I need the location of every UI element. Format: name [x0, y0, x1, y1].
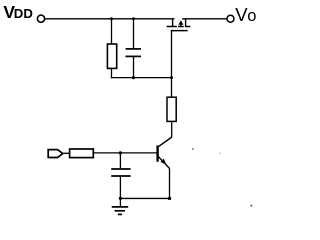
resistor R3: [70, 149, 94, 158]
wire R2 bottom lead: [171, 121, 173, 137]
wire C2 top lead: [119, 153, 121, 168]
wire port to R3: [63, 152, 70, 154]
wire C2 bottom lead: [119, 176, 121, 198]
svg-text:DD: DD: [14, 6, 33, 21]
node rail-R1 junction: [110, 17, 113, 20]
node base-C2 junction: [119, 151, 122, 154]
wire top rail: [45, 18, 175, 20]
node rail-C1 junction: [132, 17, 135, 20]
capacitor C1: [126, 49, 142, 57]
port input: [48, 150, 63, 158]
wire C1 top lead: [133, 19, 135, 49]
capacitor C2: [111, 169, 130, 176]
node C1-bus junction: [132, 76, 135, 79]
resistor R1: [107, 44, 116, 68]
MOSFET Q1: [167, 19, 191, 31]
wire bottom bus: [120, 197, 169, 199]
svg-text:o: o: [247, 7, 256, 25]
node C2-bus junction: [119, 197, 122, 200]
ground: [112, 198, 129, 214]
terminal Vo: [227, 15, 234, 22]
wire R1 top lead: [111, 19, 113, 44]
wire gate column: [171, 30, 173, 97]
wire base lead: [93, 152, 157, 154]
wire R1 bottom lead: [111, 68, 113, 78]
node gate-bus junction: [170, 76, 173, 79]
speck artifact 3: [219, 153, 220, 154]
speck artifact 2: [251, 205, 253, 207]
wire drain to Vo: [182, 18, 227, 20]
speck artifact 1: [192, 148, 194, 150]
node emitter-bus junction: [168, 197, 171, 200]
wire C1 bottom lead: [133, 56, 135, 78]
resistor R2: [167, 97, 176, 121]
wire RC bottom bus: [111, 77, 172, 79]
terminal VDD: [37, 15, 44, 22]
transistor Q2: [158, 137, 172, 168]
wire emitter lead: [169, 168, 171, 198]
